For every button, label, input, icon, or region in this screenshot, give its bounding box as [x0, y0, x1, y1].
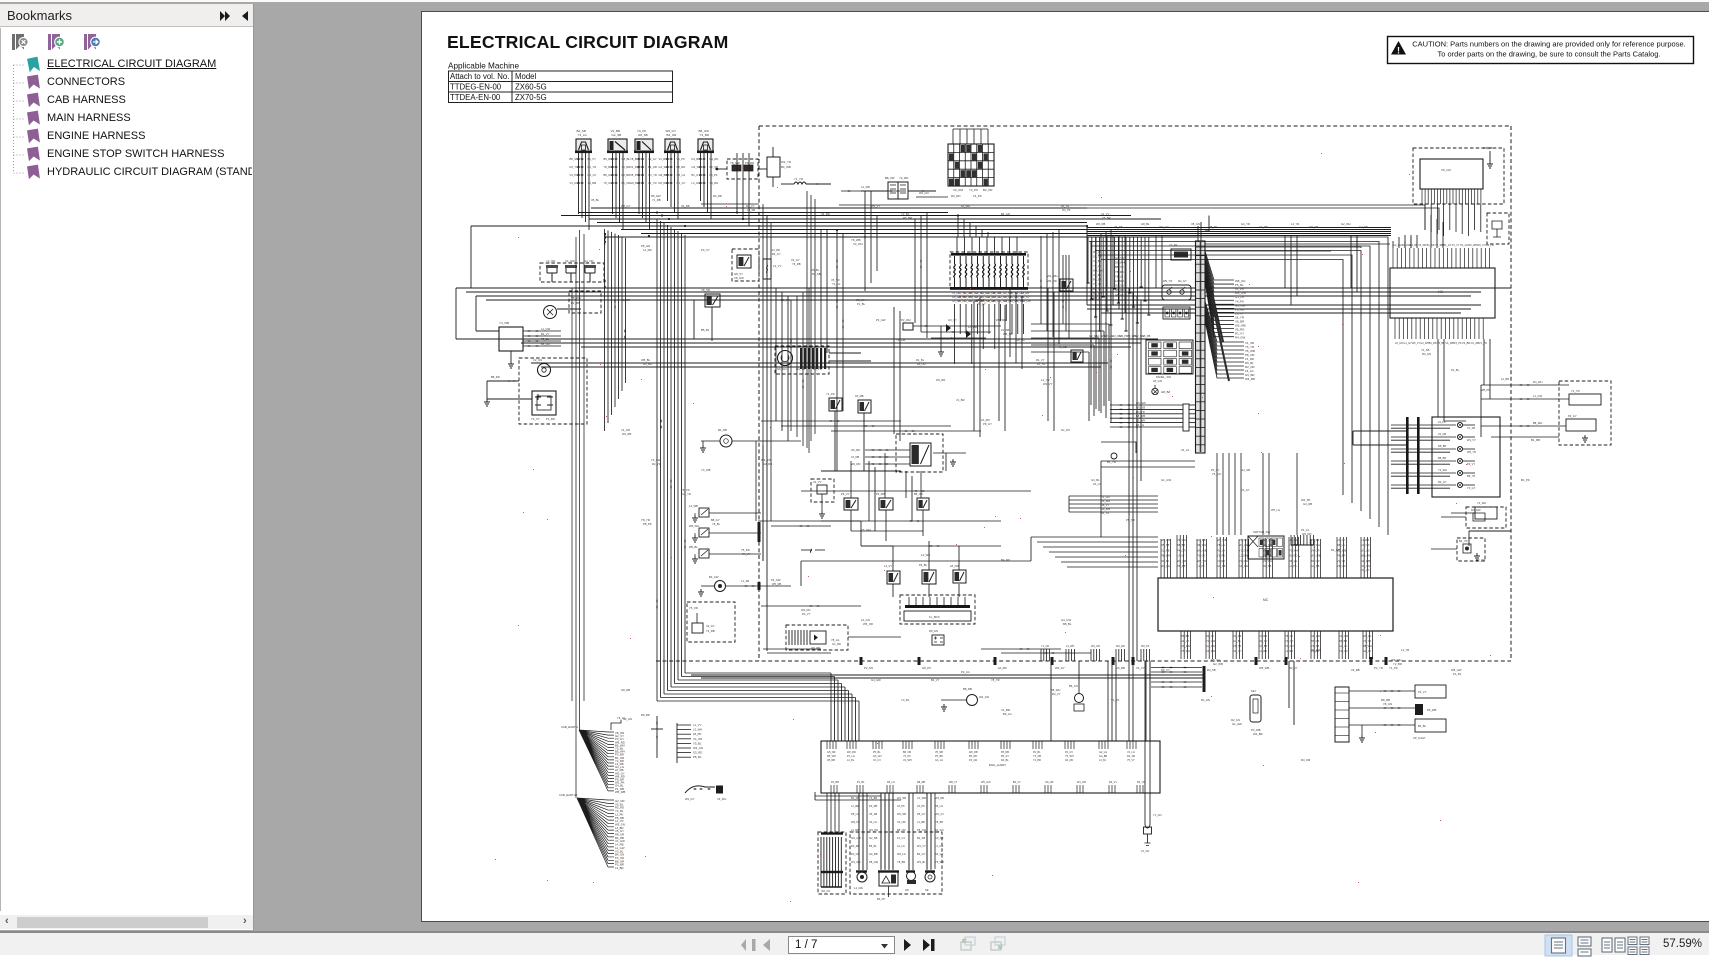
svg-text:G2_GN: G2_GN	[623, 717, 632, 721]
svg-text:TTDEG-EN-00: TTDEG-EN-00	[450, 83, 502, 92]
svg-text:L4_VY: L4_VY	[1177, 554, 1185, 558]
svg-text:W2_SB: W2_SB	[897, 812, 906, 816]
bottom toolbar	[0, 931, 1709, 955]
svg-text:Y2_RD: Y2_RD	[899, 176, 908, 180]
svg-text:G8_BL: G8_BL	[1141, 222, 1150, 226]
svg-text:Y8_SB: Y8_SB	[1058, 345, 1067, 349]
svg-text:V2_GW: V2_GW	[1339, 634, 1349, 638]
svg-text:B4_RD: B4_RD	[1001, 558, 1010, 562]
svg-text:P8_GW: P8_GW	[917, 828, 927, 832]
connector pair CN-A	[888, 182, 898, 199]
svg-text:R2_RD: R2_RD	[710, 157, 719, 161]
relay trio dashed box x895	[896, 434, 943, 472]
svg-text:W5_VY: W5_VY	[871, 204, 880, 208]
svg-text:L4_WH: L4_WH	[1066, 645, 1075, 648]
battery block	[532, 391, 556, 415]
water temp sensor	[879, 872, 898, 886]
applicable machine table	[449, 71, 673, 103]
svg-text:Y2_BR: Y2_BR	[1033, 759, 1041, 762]
svg-text:R2_RD: R2_RD	[713, 194, 722, 198]
svg-text:G4_LG: G4_LG	[935, 759, 943, 762]
svg-text:Y8_GW: Y8_GW	[730, 161, 740, 165]
svg-text:R2_GW: R2_GW	[1471, 508, 1481, 512]
svg-text:P2_WH: P2_WH	[1289, 548, 1298, 552]
svg-text:B1_RB: B1_RB	[1531, 438, 1540, 442]
svg-text:L5_GN: L5_GN	[1141, 849, 1149, 853]
relay bank K1-K5 (top left)	[575, 139, 592, 153]
svg-text:W8_SB: W8_SB	[1003, 332, 1013, 336]
svg-text:L1_GW: L1_GW	[541, 327, 551, 331]
diode box dashed (x785)	[786, 625, 848, 650]
svg-text:P2_RB: P2_RB	[571, 301, 580, 305]
svg-text:B4_RD: B4_RD	[1429, 342, 1437, 345]
wires to small boxes right	[1349, 685, 1446, 732]
left connector trio in dashed box	[540, 263, 604, 282]
svg-text:G4_OR: G4_OR	[584, 259, 593, 263]
svg-text:B5_BR: B5_BR	[1177, 543, 1185, 547]
svg-text:B1_PK: B1_PK	[1521, 478, 1530, 482]
svg-text:L1_VY: L1_VY	[693, 723, 702, 727]
fan-out labels lower	[1245, 341, 1255, 381]
svg-text:B5_LG: B5_LG	[935, 804, 943, 808]
svg-text:G2_WH: G2_WH	[1341, 222, 1351, 226]
svg-text:G8_SB: G8_SB	[638, 133, 648, 137]
svg-text:Y5_WB: Y5_WB	[935, 860, 944, 864]
svg-text:G8_GY: G8_GY	[1233, 649, 1242, 653]
small dashed box right (x1486)	[1487, 213, 1509, 244]
sensor dashed box 2	[850, 832, 942, 894]
svg-text:G8_RB: G8_RB	[621, 688, 630, 692]
svg-text:L8_PK: L8_PK	[917, 804, 925, 808]
svg-text:R8_WH: R8_WH	[1197, 543, 1206, 547]
MC top pin labels	[1161, 538, 1371, 568]
svg-text:G1_GY: G1_GY	[677, 181, 686, 185]
svg-text:W8_SB: W8_SB	[1483, 146, 1493, 150]
svg-text:R5_WH: R5_WH	[827, 755, 836, 758]
svg-text:V8_GW: V8_GW	[734, 276, 744, 280]
bottom-right connector bar	[1335, 687, 1349, 742]
svg-text:Y8_YR: Y8_YR	[1233, 644, 1241, 648]
svg-text:B8_RD: B8_RD	[677, 165, 686, 169]
svg-text:B4_VY: B4_VY	[931, 678, 940, 682]
svg-text:W4_RB: W4_RB	[622, 432, 631, 436]
svg-text:P8_GY: P8_GY	[983, 422, 992, 426]
fuse F-S	[763, 259, 771, 279]
tick clusters above bottom boundary	[1041, 645, 1150, 661]
svg-text:G4_RB: G4_RB	[1197, 538, 1206, 542]
svg-text:V1_GY: V1_GY	[791, 258, 800, 262]
svg-text:V3_YR: V3_YR	[1337, 559, 1345, 563]
svg-text:G8_WH: G8_WH	[1115, 261, 1125, 265]
svg-text:R4_SB: R4_SB	[1263, 564, 1271, 568]
svg-text:V5_PK: V5_PK	[1239, 538, 1247, 542]
extra central verticals	[776, 288, 1054, 531]
svg-text:P3_VY: P3_VY	[1211, 468, 1220, 472]
svg-text:W1_WH: W1_WH	[1047, 274, 1057, 278]
svg-text:G3_WB: G3_WB	[692, 165, 702, 169]
svg-text:G1_RD: G1_RD	[832, 642, 841, 646]
svg-text:B8_OR: B8_OR	[903, 751, 911, 754]
svg-text:W3_RD: W3_RD	[1302, 532, 1311, 536]
svg-text:G8_WB: G8_WB	[1361, 559, 1370, 563]
svg-text:B1_RD: B1_RD	[1289, 554, 1297, 558]
svg-text:P1_GW: P1_GW	[1239, 559, 1249, 563]
svg-text:L5_LG: L5_LG	[1093, 482, 1101, 486]
wires into fuse bank top	[957, 237, 1017, 253]
svg-text:B8_WH: B8_WH	[1533, 421, 1542, 425]
svg-text:B8_RB: B8_RB	[963, 687, 972, 691]
glow plug U-drop	[1145, 661, 1150, 824]
relay K8	[829, 398, 842, 411]
svg-text:Y1_YR: Y1_YR	[1571, 389, 1580, 393]
junction blobs on bottom dashed boundary	[860, 657, 863, 665]
svg-text:R8_VY: R8_VY	[1101, 503, 1109, 507]
svg-text:P8_PK: P8_PK	[1209, 225, 1218, 229]
diagnostic connector sketch	[685, 786, 715, 793]
wires above fuse box	[953, 129, 988, 144]
svg-text:R1_BL: R1_BL	[916, 358, 925, 362]
svg-text:B8_BL: B8_BL	[1063, 622, 1072, 626]
svg-text:B5_LG: B5_LG	[1337, 543, 1345, 547]
svg-text:G8_WH: G8_WH	[1311, 634, 1320, 638]
svg-text:V4_VY: V4_VY	[1136, 666, 1145, 670]
svg-text:G2_YR: G2_YR	[682, 492, 691, 496]
svg-text:R1_VY: R1_VY	[1036, 358, 1045, 362]
svg-text:Y2_BR: Y2_BR	[1393, 662, 1402, 666]
svg-text:R5_SB: R5_SB	[1161, 543, 1169, 547]
svg-text:G2_GY: G2_GY	[588, 173, 597, 177]
wires below relay 2	[604, 153, 631, 230]
svg-text:L4_WB: L4_WB	[921, 553, 930, 557]
svg-text:V4_OR: V4_OR	[693, 737, 702, 741]
svg-text:R4_OR: R4_OR	[1301, 758, 1310, 762]
svg-text:Attach to vol. No.: Attach to vol. No.	[450, 72, 509, 81]
svg-text:Y3_OR: Y3_OR	[1476, 558, 1485, 562]
svg-text:B4_BL: B4_BL	[1418, 724, 1427, 728]
svg-text:G3_GY: G3_GY	[948, 318, 957, 322]
fan-out bundle lower	[1205, 301, 1244, 381]
svg-text:Y1_PK: Y1_PK	[1389, 666, 1398, 670]
svg-text:Y5_OR: Y5_OR	[689, 606, 698, 610]
wire mesh mid-page verticals	[737, 153, 1059, 421]
svg-text:P2_GY: P2_GY	[1065, 751, 1073, 754]
svg-text:V5_WH: V5_WH	[861, 528, 871, 532]
svg-text:P3_LG: P3_LG	[1301, 528, 1309, 532]
svg-text:V4_YR: V4_YR	[648, 181, 657, 185]
svg-text:W4_WH: W4_WH	[1093, 268, 1103, 272]
verticals from mid bus down (x1062-1067)	[1063, 255, 1069, 338]
svg-text:L3_WH: L3_WH	[693, 728, 702, 732]
svg-text:V4_RB: V4_RB	[630, 165, 639, 169]
svg-text:L3_BR: L3_BR	[615, 866, 624, 870]
ECU top labels	[1393, 244, 1494, 247]
svg-text:P3_VY: P3_VY	[701, 248, 710, 252]
long verticals x806-814	[807, 191, 815, 448]
feed verticals to connector bar	[1288, 661, 1290, 708]
fan-out bundle upper (dark diagonal)	[1205, 251, 1234, 342]
svg-text:Y4_WB: Y4_WB	[499, 321, 509, 325]
svg-text:W5_RB: W5_RB	[1161, 538, 1170, 542]
svg-text:L4_GN: L4_GN	[692, 181, 701, 185]
switch panel grid 2	[1248, 536, 1284, 559]
svg-text:V5_RB: V5_RB	[1142, 334, 1150, 338]
svg-text:L3_YR: L3_YR	[1291, 222, 1299, 226]
svg-text:B4_GY: B4_GY	[917, 852, 926, 856]
svg-text:L8_PK: L8_PK	[710, 173, 718, 177]
svg-text:G5_RD: G5_RD	[693, 751, 702, 755]
svg-text:Y5_GW: Y5_GW	[896, 338, 906, 342]
svg-text:B1_SB: B1_SB	[851, 796, 859, 800]
svg-text:P4_BR: P4_BR	[1462, 342, 1470, 345]
AC compressor dashed box	[687, 602, 735, 642]
svg-text:V8_RB: V8_RB	[827, 759, 835, 762]
svg-text:B3_OR: B3_OR	[667, 133, 678, 137]
small dark box near strip top	[1171, 249, 1191, 260]
svg-text:L8_PK: L8_PK	[897, 804, 905, 808]
bundle down from block	[1425, 204, 1481, 236]
misc connecting wires right half	[1101, 288, 1511, 546]
svg-text:L4_WB: L4_WB	[861, 185, 870, 189]
svg-text:W2_GW: W2_GW	[851, 836, 861, 840]
svg-text:W5_RD: W5_RD	[1047, 279, 1057, 283]
svg-text:L2_RD: L2_RD	[1259, 649, 1267, 653]
svg-text:W3_GY: W3_GY	[1055, 666, 1065, 670]
svg-text:L8_RB: L8_RB	[1259, 634, 1267, 638]
svg-text:P1_LG: P1_LG	[847, 755, 855, 758]
svg-text:R3_PK: R3_PK	[1161, 559, 1169, 563]
small box under lamp cluster	[1475, 507, 1497, 519]
svg-text:B1_VY: B1_VY	[541, 332, 550, 336]
svg-text:P3_BR: P3_BR	[831, 781, 839, 784]
verticals rising to ECU	[1393, 215, 1443, 248]
svg-text:B2_SB: B2_SB	[917, 836, 925, 840]
svg-text:P1_SB: P1_SB	[1311, 538, 1319, 542]
scattered micro labels across diagram	[621, 212, 1540, 762]
svg-text:ZX60-5G: ZX60-5G	[515, 83, 547, 92]
horn circle	[538, 364, 551, 377]
ground stub top-right	[1489, 151, 1491, 161]
terminal bar x1203 and wire rows	[1203, 666, 1206, 692]
fan labels 2	[615, 799, 625, 870]
svg-text:Y8_GW: Y8_GW	[604, 181, 614, 185]
svg-text:G4_LG: G4_LG	[1393, 244, 1401, 247]
svg-text:V2_VY: V2_VY	[813, 480, 822, 484]
svg-text:L8_GN: L8_GN	[1153, 379, 1162, 383]
rev sensor	[925, 872, 935, 882]
svg-text:V5_OR: V5_OR	[1289, 538, 1298, 542]
svg-text:V3_RB: V3_RB	[1351, 668, 1360, 672]
svg-text:Y5_WH: Y5_WH	[1181, 649, 1190, 653]
svg-text:G1_GY: G1_GY	[1403, 342, 1412, 345]
svg-text:W4_RD: W4_RD	[851, 462, 860, 466]
svg-text:P8_PK: P8_PK	[643, 522, 652, 526]
svg-text:P5_BL: P5_BL	[873, 751, 881, 754]
svg-text:CAUTION: Parts numbers on the: CAUTION: Parts numbers on the drawing ar…	[1412, 40, 1685, 49]
svg-text:P4_GY: P4_GY	[1241, 488, 1250, 492]
svg-text:Y5_SB: Y5_SB	[1114, 225, 1123, 229]
blower motor	[778, 351, 793, 366]
svg-text:P2_LG: P2_LG	[961, 670, 970, 674]
vertical bundle x1090-1140 (center right)	[1091, 230, 1141, 661]
svg-text:P1_BL: P1_BL	[857, 302, 866, 306]
svg-text:R1_BR: R1_BR	[692, 157, 701, 161]
wiper pressure switch	[715, 581, 726, 592]
svg-text:G8_VY: G8_VY	[1115, 293, 1124, 297]
svg-text:B3_VY: B3_VY	[1206, 634, 1214, 638]
horizontal feeds into MC pins from left	[1031, 537, 1158, 567]
svg-text:B8_WH: B8_WH	[1363, 644, 1372, 648]
tall connector strip CN-T	[1196, 241, 1206, 453]
svg-text:Applicable Machine: Applicable Machine	[448, 62, 519, 71]
svg-text:B2_GY: B2_GY	[772, 252, 781, 256]
wires below relay 3	[630, 153, 657, 230]
svg-text:B3_LG: B3_LG	[1003, 712, 1012, 716]
svg-text:Y2_WH: Y2_WH	[1477, 501, 1486, 505]
svg-text:Y4_RB: Y4_RB	[622, 165, 631, 169]
svg-text:P2_WH: P2_WH	[901, 318, 911, 322]
wires below relay 4	[659, 153, 686, 219]
svg-text:L3_BL: L3_BL	[1099, 759, 1107, 762]
svg-text:R8_LG: R8_LG	[1289, 559, 1297, 563]
svg-text:V5_BL: V5_BL	[591, 198, 600, 202]
svg-text:W2_PK: W2_PK	[1141, 645, 1150, 648]
svg-text:L4_GN: L4_GN	[935, 844, 943, 848]
svg-text:P2_BL: P2_BL	[1451, 368, 1460, 372]
svg-text:Y3_OR: Y3_OR	[1033, 755, 1041, 758]
svg-text:V3_GW: V3_GW	[953, 188, 963, 192]
svg-text:V4_SB: V4_SB	[681, 204, 690, 208]
svg-text:P4_GN: P4_GN	[851, 852, 860, 856]
svg-text:TTDEA-EN-00: TTDEA-EN-00	[450, 93, 501, 102]
svg-text:R2_SB: R2_SB	[1127, 755, 1135, 758]
svg-text:W8_PK: W8_PK	[1481, 388, 1490, 392]
cross wire column x656	[656, 716, 658, 758]
svg-text:G3_BL: G3_BL	[1233, 639, 1242, 643]
svg-text:Y8_BR: Y8_BR	[630, 157, 639, 161]
svg-text:Y1_GN: Y1_GN	[1153, 813, 1162, 817]
long horizontal pair y674/677	[691, 674, 1204, 676]
svg-text:Y8_YR: Y8_YR	[991, 678, 1000, 682]
svg-text:W4_LG: W4_LG	[1161, 564, 1170, 568]
svg-text:G5_OR: G5_OR	[827, 751, 836, 754]
svg-text:G8_GW: G8_GW	[1239, 564, 1249, 568]
long wires to top-right block	[205, 1, 1439, 251]
svg-text:R2_YR: R2_YR	[652, 462, 661, 466]
svg-text:W2_OR: W2_OR	[1091, 645, 1100, 648]
svg-text:G3_BR: G3_BR	[1359, 225, 1368, 229]
feed wires down to engine box area	[1051, 661, 1150, 741]
svg-text:R3_GN: R3_GN	[1422, 352, 1431, 356]
svg-text:P2_VY: P2_VY	[1467, 462, 1475, 466]
svg-text:W2_BR: W2_BR	[936, 378, 945, 382]
svg-text:V1_OR: V1_OR	[1361, 543, 1370, 547]
svg-text:G1_GW: G1_GW	[1232, 722, 1242, 726]
main horizontal bus (upper)	[471, 208, 1197, 237]
svg-text:Y1_GN: Y1_GN	[1041, 645, 1049, 648]
svg-text:P4_GW: P4_GW	[771, 578, 781, 582]
bookmarks sidebar	[0, 4, 254, 930]
keypad switch grid	[1146, 340, 1193, 374]
alternator pump circle	[1075, 694, 1084, 703]
svg-text:L8_YR: L8_YR	[1061, 204, 1069, 208]
svg-text:R4_BR: R4_BR	[643, 362, 652, 366]
svg-text:Y2_SB: Y2_SB	[1421, 348, 1430, 352]
svg-text:B2_OR: B2_OR	[983, 188, 992, 192]
svg-text:UP_LIGHT: UP_LIGHT	[1413, 736, 1426, 740]
svg-text:P8_LG: P8_LG	[851, 812, 859, 816]
svg-text:V5_LG: V5_LG	[976, 298, 984, 302]
svg-text:V5_GN: V5_GN	[1441, 168, 1451, 172]
sensor tick bars and drop labels	[821, 793, 944, 873]
svg-text:W8_GW: W8_GW	[1361, 554, 1371, 558]
labels under bundle	[1089, 334, 1151, 338]
horn/battery dashed box bottom-left	[519, 358, 587, 424]
svg-text:P8_GW: P8_GW	[869, 860, 879, 864]
lamp drop wire	[1101, 442, 1136, 453]
relay K11	[1071, 350, 1083, 362]
svg-text:V1_PK: V1_PK	[677, 157, 686, 161]
svg-text:P1_GY: P1_GY	[1197, 554, 1206, 558]
top-right harness dashed box	[1413, 148, 1504, 204]
svg-text:Y8_RB: Y8_RB	[604, 165, 613, 169]
svg-text:G8_PK: G8_PK	[922, 666, 931, 670]
svg-text:R2_YR: R2_YR	[1137, 781, 1145, 784]
svg-text:L5_YR: L5_YR	[1037, 362, 1045, 366]
svg-text:Y8_LG: Y8_LG	[1115, 274, 1123, 278]
svg-text:W3_BL: W3_BL	[917, 860, 926, 864]
L-bend bus to engine harness box	[657, 673, 859, 741]
svg-text:G5_LG: G5_LG	[677, 173, 686, 177]
svg-text:Model: Model	[515, 72, 537, 81]
bus y337-366	[456, 339, 1158, 367]
svg-text:G8_BL: G8_BL	[630, 181, 639, 185]
svg-text:V1_VY: V1_VY	[1101, 212, 1110, 216]
svg-text:G4_YR: G4_YR	[1241, 222, 1250, 226]
comb under block	[1422, 189, 1481, 204]
wires below relay 1	[570, 153, 597, 230]
svg-text:P8_BL: P8_BL	[693, 755, 702, 759]
svg-text:W4_RD: W4_RD	[869, 828, 878, 832]
svg-text:L1_GW: L1_GW	[1533, 394, 1543, 398]
wire bundle into strip top	[1198, 216, 1209, 242]
svg-text:Y3_LG: Y3_LG	[578, 133, 588, 137]
svg-text:HR_BZ: HR_BZ	[1161, 390, 1170, 394]
svg-text:V4_GW: V4_GW	[565, 259, 575, 263]
svg-text:B1_GY: B1_GY	[692, 173, 701, 177]
svg-text:V3_RB: V3_RB	[1116, 666, 1125, 670]
wires below relay 5	[692, 153, 719, 219]
verticals from dark bus down	[1107, 235, 1417, 313]
svg-text:R3_VY: R3_VY	[1109, 781, 1117, 784]
svg-text:G1_SB: G1_SB	[1217, 564, 1226, 568]
svg-text:W2_RB: W2_RB	[969, 751, 978, 754]
fan-out bundle 2	[577, 798, 614, 867]
svg-text:B3_WB: B3_WB	[1093, 291, 1102, 295]
svg-text:B8_GY: B8_GY	[711, 518, 720, 522]
sensor dashed box 1 (comb)	[818, 832, 846, 894]
svg-text:B3_GN: B3_GN	[1001, 212, 1010, 216]
fuse bank labels and down wires	[952, 291, 1031, 364]
svg-text:W8_GY: W8_GY	[621, 204, 631, 208]
wires top area small stubs y180-205	[701, 184, 948, 204]
svg-text:V1_OR: V1_OR	[1337, 564, 1346, 568]
staircase corners into ECU/MC region	[1086, 237, 1388, 535]
comb above switch panel	[1291, 535, 1313, 545]
svg-text:L4_PK: L4_PK	[1197, 564, 1205, 568]
svg-text:W8_VY: W8_VY	[949, 781, 958, 784]
svg-text:B2_PK: B2_PK	[877, 897, 885, 901]
svg-text:SWITCH_SW: SWITCH_SW	[1253, 530, 1270, 534]
